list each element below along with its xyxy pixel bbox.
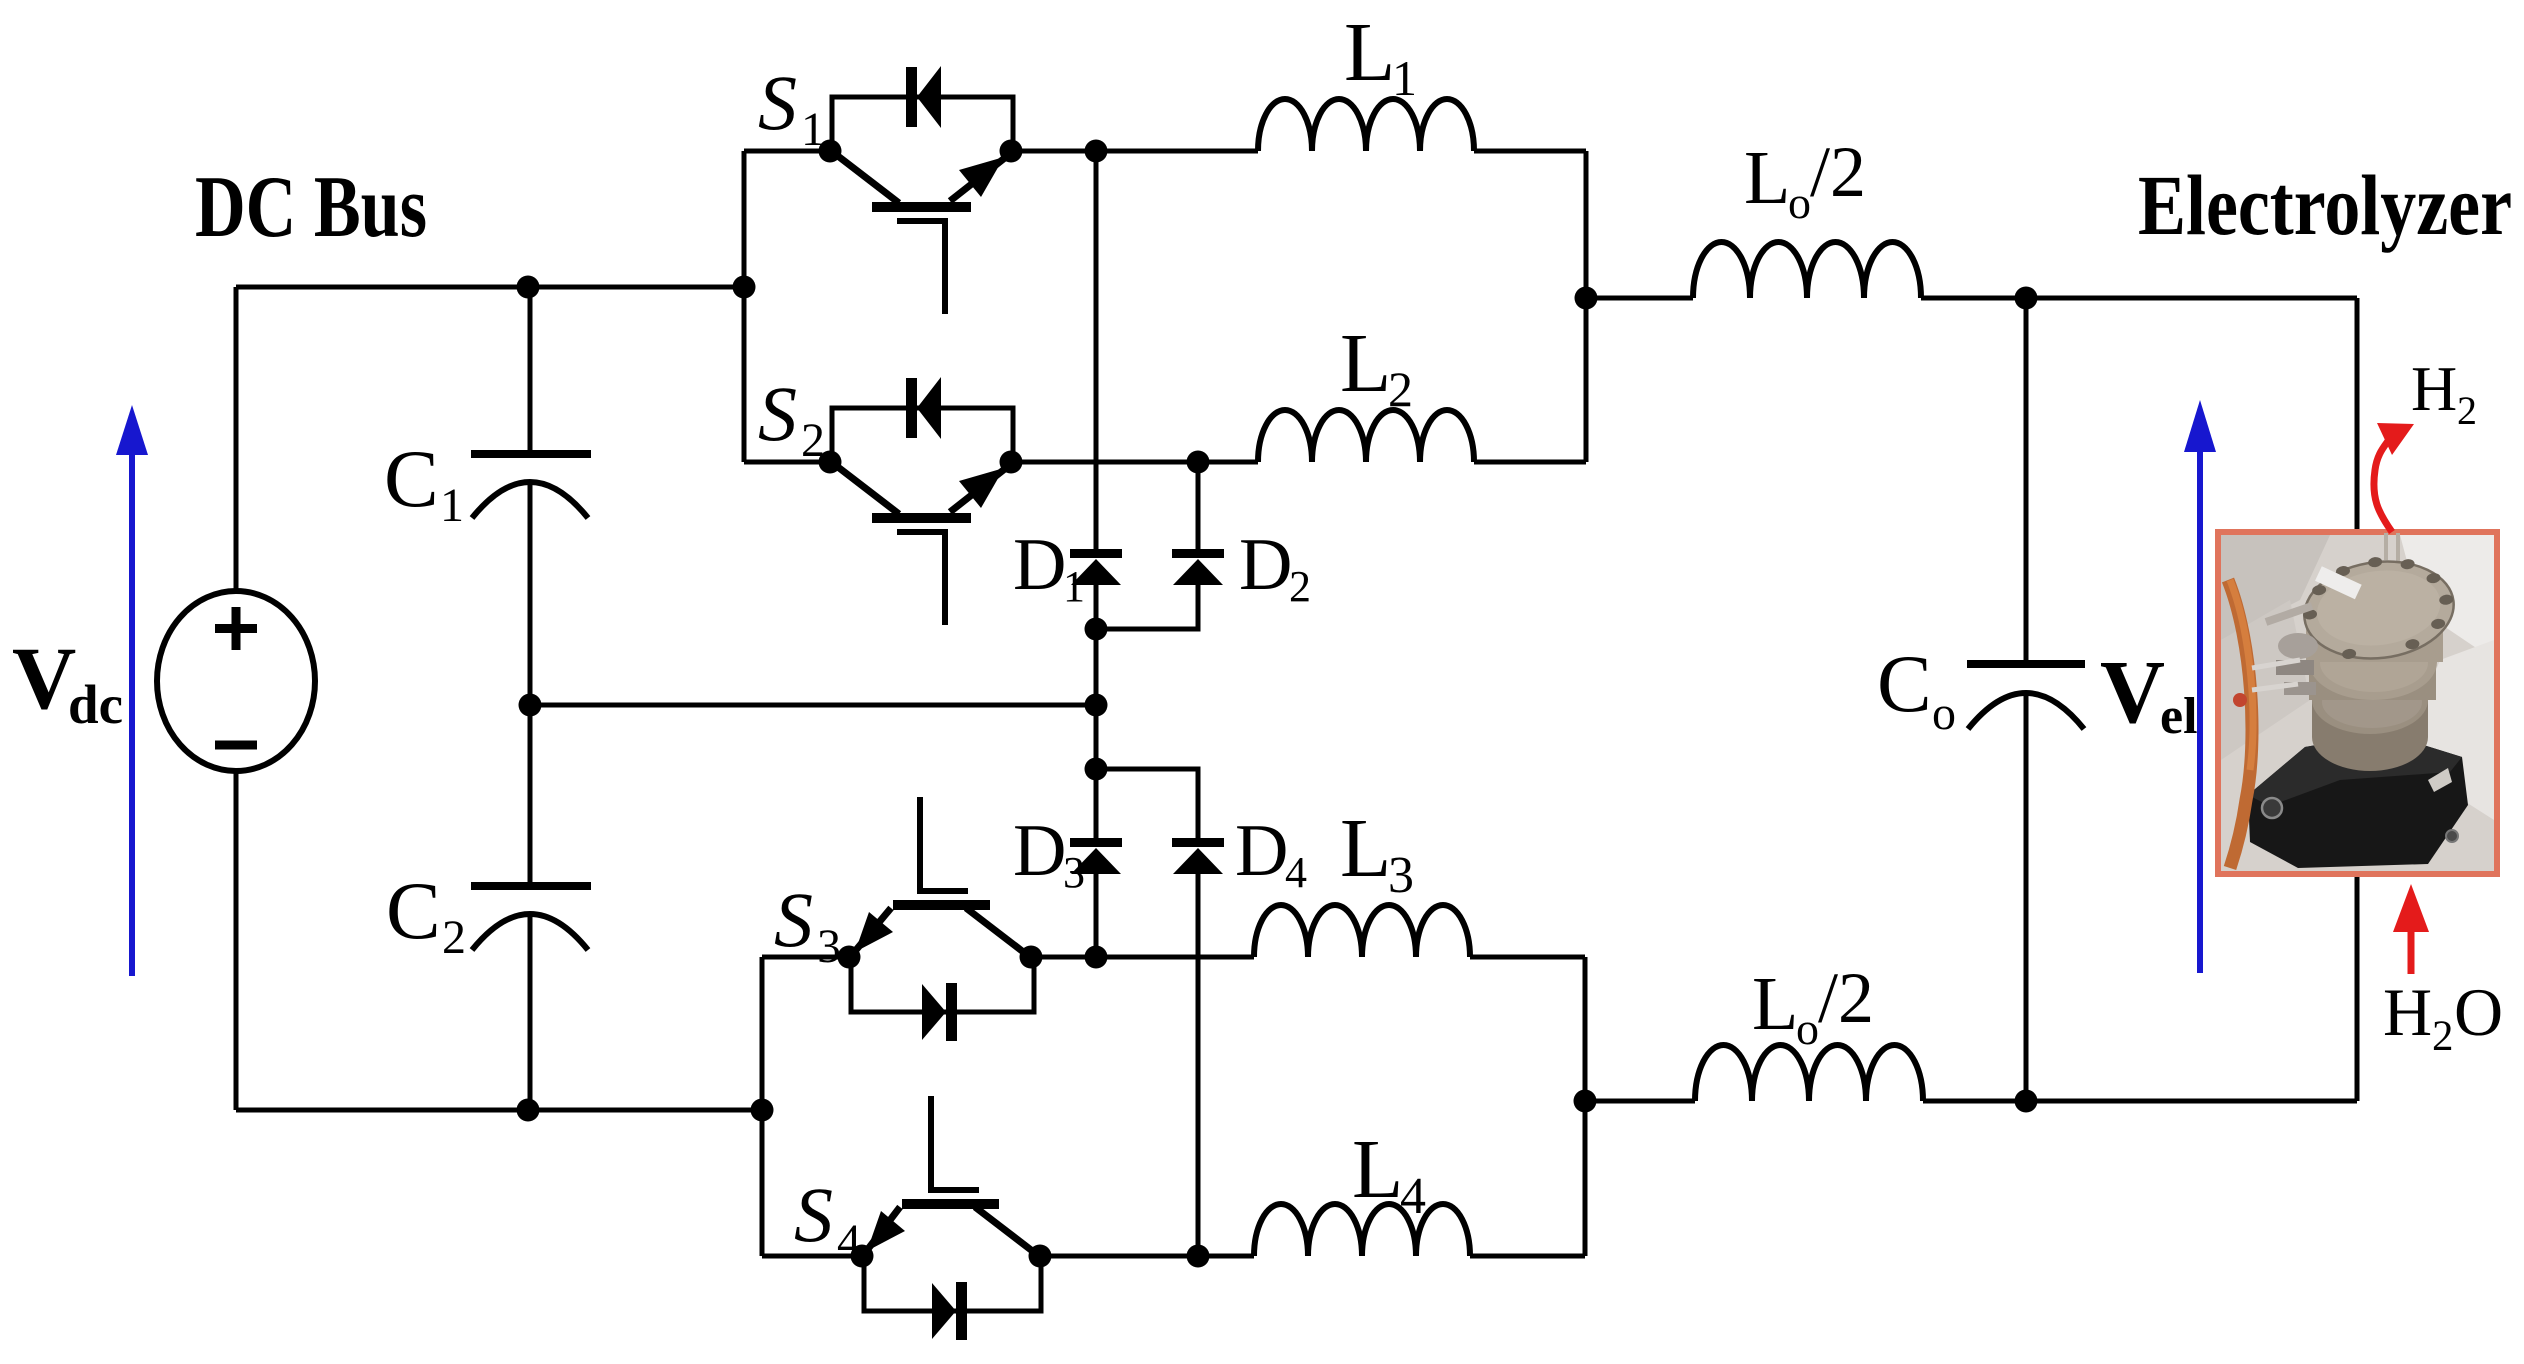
svg-text:S: S [794, 1171, 833, 1258]
wire top DC bus [236, 285, 744, 290]
wire midpoint rail [530, 703, 1096, 708]
node Lo/2 bottom output / Co bottom [2015, 1090, 2038, 1113]
svg-text:H: H [2411, 353, 2457, 424]
svg-text:S: S [758, 370, 797, 457]
svg-text:L: L [1752, 962, 1798, 1046]
svg-text:2: 2 [1388, 361, 1413, 417]
label D4 [1235, 810, 1307, 897]
inductor L3 [1254, 905, 1470, 957]
node S4 output / D4 [1187, 1245, 1210, 1268]
arrow H2 out (red) [2374, 423, 2414, 532]
node top bus - C1 [517, 276, 540, 299]
svg-text:L: L [1344, 6, 1395, 99]
inductor L1 [1258, 99, 1474, 151]
wire electrolyzer right branch top [2355, 298, 2360, 532]
node S3 collector [1020, 946, 1043, 969]
svg-text:el: el [2160, 688, 2198, 745]
wire S1 row [744, 149, 1586, 154]
svg-text:o: o [1932, 687, 1956, 740]
node L1-L2 junction to Lo/2 top [1575, 287, 1598, 310]
wire L3-L4 right join [1583, 957, 1588, 1256]
wire left vertical S3-S4 [760, 957, 765, 1256]
wire source bottom to bottom bus [234, 770, 239, 1110]
label S2 [758, 370, 825, 467]
electrolyzer photo [2218, 532, 2497, 874]
svg-text:L: L [1744, 136, 1790, 220]
svg-text:2: 2 [442, 911, 466, 964]
wire S3 row [762, 955, 1585, 960]
node bottom bus - S3/S4 leg [751, 1099, 774, 1122]
svg-text:L: L [1352, 1123, 1403, 1216]
node top bus - S1/S2 leg [733, 276, 756, 299]
svg-text:4: 4 [1285, 848, 1307, 897]
arrow H2O in (red) [2393, 884, 2429, 974]
label S1 [758, 59, 825, 156]
svg-text:1: 1 [440, 479, 464, 532]
svg-text:2: 2 [2432, 1013, 2454, 1060]
label L4 [1352, 1123, 1426, 1225]
node S4 emitter [851, 1245, 874, 1268]
wire electrolyzer right branch bottom [2355, 874, 2360, 1101]
node bottom bus - C2 [517, 1099, 540, 1122]
node S2 emitter [1000, 451, 1023, 474]
node Lo/2 top output / Co top [2015, 287, 2038, 310]
wire D4 branch [1096, 769, 1198, 1256]
svg-text:/2: /2 [1810, 132, 1866, 212]
svg-text:DC Bus: DC Bus [195, 159, 427, 256]
node S4 collector [1029, 1245, 1052, 1268]
diode D2 [1172, 549, 1224, 585]
svg-text:V: V [12, 630, 76, 728]
node S1 collector [819, 140, 842, 163]
node D1-D2 cathode junction [1085, 618, 1108, 641]
svg-text:4: 4 [1400, 1168, 1426, 1225]
wire Lo/2 top row [1586, 296, 2357, 301]
svg-text:D: D [1013, 810, 1066, 892]
svg-text:D: D [1239, 524, 1292, 606]
node S3 output / D3 [1085, 946, 1108, 969]
svg-text:S: S [774, 876, 813, 963]
svg-text:o: o [1788, 177, 1811, 228]
inductor Lo/2 bottom [1695, 1045, 1923, 1101]
svg-text:D: D [1013, 524, 1066, 606]
svg-text:L: L [1340, 317, 1391, 410]
node C1-C2 midpoint [519, 694, 542, 717]
label Lo/2 bottom [1752, 958, 1874, 1054]
svg-text:C: C [1877, 638, 1932, 729]
label Co [1877, 638, 1956, 740]
label S4 [794, 1171, 861, 1268]
node L3-L4 junction to Lo/2 bottom [1574, 1090, 1597, 1113]
svg-text:Electrolyzer: Electrolyzer [2138, 157, 2512, 253]
node S2 output / D2 column [1187, 451, 1210, 474]
inductor L2 [1258, 410, 1474, 462]
label H2 [2411, 353, 2477, 433]
svg-text:2: 2 [2457, 388, 2477, 433]
label Vdc [12, 630, 123, 735]
inductor Lo/2 top [1693, 242, 1921, 298]
svg-text:O: O [2454, 974, 2503, 1050]
node midpoint rail - center column [1085, 694, 1108, 717]
label H2O [2383, 974, 2503, 1060]
arrow Vel (blue) [2184, 400, 2216, 973]
label S3 [774, 876, 841, 973]
wire left vertical from bus to source [234, 287, 239, 592]
diode D3 [1070, 838, 1122, 874]
capacitor C2 [471, 886, 591, 950]
label L3 [1340, 802, 1414, 904]
svg-text:L: L [1340, 802, 1391, 895]
node S1 output / L1 / D1 column [1085, 140, 1108, 163]
switch S1 (IGBT with antiparallel diode) [832, 66, 1013, 314]
svg-text:C: C [384, 433, 439, 524]
svg-text:S: S [758, 59, 797, 146]
wire Co column [2024, 298, 2029, 1101]
node D3-D4 anode branch [1085, 758, 1108, 781]
label C2 [386, 865, 466, 964]
label L1 [1344, 6, 1417, 106]
label D1 [1013, 524, 1085, 611]
wire D2 branch [1096, 462, 1198, 629]
svg-text:3: 3 [817, 920, 841, 973]
wire S4 row [762, 1254, 1585, 1259]
svg-text:/2: /2 [1818, 958, 1874, 1038]
wire C1 C2 column [528, 287, 533, 1110]
svg-text:dc: dc [68, 674, 123, 735]
svg-text:1: 1 [1063, 562, 1085, 611]
wire Lo/2 bottom row [1585, 1099, 2357, 1104]
label Lo/2 top [1744, 132, 1866, 228]
switch S2 (IGBT with antiparallel diode) [832, 377, 1013, 625]
inductor L4 [1254, 1204, 1470, 1256]
voltage source Vdc [157, 591, 315, 771]
node S2 collector [819, 451, 842, 474]
label L2 [1340, 317, 1413, 417]
node S3 emitter [838, 946, 861, 969]
svg-text:3: 3 [1388, 847, 1414, 904]
arrow Vdc (blue) [116, 405, 148, 976]
svg-text:3: 3 [1063, 848, 1085, 897]
svg-text:H: H [2383, 974, 2432, 1050]
svg-text:C: C [386, 865, 441, 956]
label D2 [1239, 524, 1311, 611]
wire bottom DC bus [236, 1108, 762, 1113]
svg-text:2: 2 [1289, 562, 1311, 611]
wire L1-L2 right join [1584, 151, 1589, 462]
svg-text:o: o [1796, 1003, 1819, 1054]
diode D1 [1070, 549, 1122, 585]
label C1 [384, 433, 464, 532]
svg-text:1: 1 [1392, 50, 1417, 106]
label Vel [2100, 643, 2198, 745]
capacitor Co [1967, 664, 2085, 729]
capacitor C1 [471, 454, 591, 518]
node S1 emitter [1000, 140, 1023, 163]
wire left vertical S1-S2 [742, 151, 747, 462]
diode D4 [1172, 838, 1224, 874]
switch S3 (IGBT with antiparallel diode) [851, 797, 1034, 1041]
switch S4 (IGBT with antiparallel diode) [864, 1096, 1041, 1340]
svg-text:D: D [1235, 810, 1288, 892]
wire phase node column [1094, 151, 1099, 957]
wire S2 row [744, 460, 1586, 465]
svg-text:V: V [2100, 643, 2165, 742]
label D3 [1013, 810, 1085, 897]
